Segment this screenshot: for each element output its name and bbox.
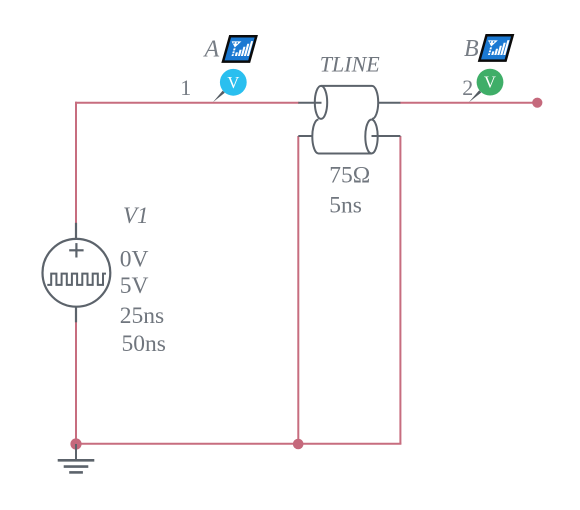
svg-text:V1: V1 — [123, 203, 149, 228]
svg-text:B: B — [464, 36, 479, 62]
svg-text:V: V — [484, 73, 496, 92]
probe B circle — [477, 69, 504, 96]
node terminal dot net2 end — [532, 98, 542, 108]
ground symbol — [58, 444, 95, 472]
transmission line T1 symbol — [298, 86, 400, 154]
svg-text:5V: 5V — [120, 273, 149, 299]
wire left vertical lower (V1 bottom to ground junction) — [75, 322, 77, 444]
probe A pointer — [213, 91, 225, 103]
wire bottom horizontal — [76, 443, 401, 445]
voltage source V1 (pulse) — [43, 223, 111, 322]
probe A grapher icon — [223, 36, 256, 61]
svg-text:1: 1 — [180, 75, 191, 100]
svg-text:5ns: 5ns — [329, 192, 362, 218]
node junction ground — [70, 438, 81, 449]
svg-text:0V: 0V — [120, 246, 149, 272]
wire top net1 horizontal — [75, 102, 299, 104]
probe B grapher icon — [479, 35, 512, 60]
svg-text:TLINE: TLINE — [320, 52, 380, 77]
svg-text:75Ω: 75Ω — [329, 162, 370, 188]
wire TLINE bottom-right vertical — [399, 136, 401, 444]
wire left vertical upper (corner to V1 top) — [75, 102, 77, 224]
wire TLINE bottom-left vertical — [297, 136, 299, 444]
probe A circle — [220, 69, 247, 96]
node junction bottom middle — [293, 439, 304, 450]
wire top net2 horizontal — [400, 102, 534, 104]
svg-text:2: 2 — [462, 75, 473, 100]
svg-text:25ns: 25ns — [120, 303, 164, 329]
svg-text:50ns: 50ns — [122, 331, 166, 357]
svg-text:A: A — [203, 36, 220, 62]
probe B pointer — [469, 90, 481, 102]
svg-text:V: V — [227, 73, 239, 92]
